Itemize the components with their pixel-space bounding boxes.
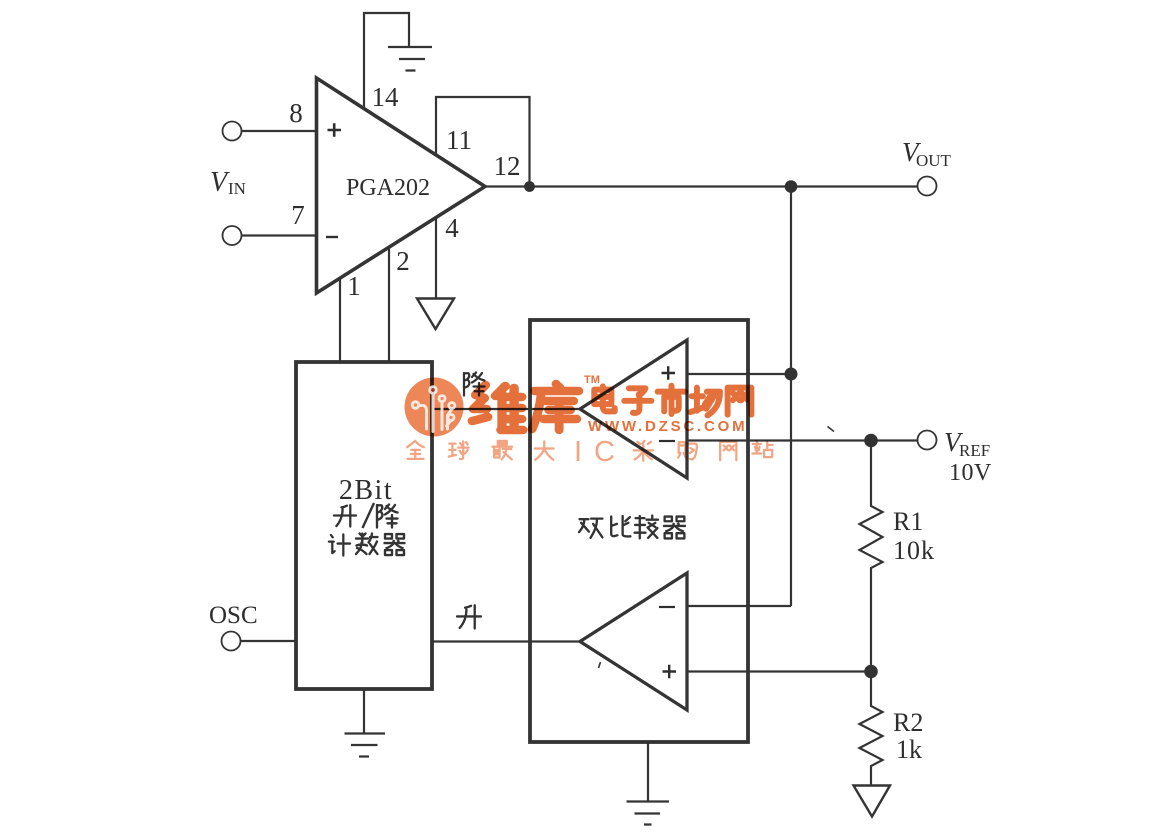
wire pin 1: [339, 278, 341, 362]
svg-text:WWW.DZSC.COM: WWW.DZSC.COM: [588, 418, 747, 435]
ground counter: [345, 734, 386, 757]
wire pin 7: [242, 234, 317, 236]
VOUT terminal circle: [918, 177, 937, 196]
counter box 2Bit: [296, 362, 432, 689]
watermark logo circuit traces: [411, 385, 456, 431]
counter text sheng/jiang row: [334, 505, 356, 526]
svg-text:4: 4: [445, 213, 459, 243]
wire pin 14 to top ground: [364, 13, 409, 109]
svg-text:1: 1: [347, 271, 361, 301]
ground arrow R2: [854, 786, 891, 817]
wire pin 11 feedback loop: [436, 97, 530, 187]
svg-text:12: 12: [494, 151, 521, 181]
svg-text:R2: R2: [893, 708, 923, 737]
wire DOWN net counter to comparator A: [432, 408, 580, 410]
wire VOUT branch vertical: [790, 187, 792, 607]
ground top (pin 14): [388, 47, 432, 71]
ground comparator: [627, 802, 670, 825]
svg-text:10V: 10V: [949, 460, 992, 486]
minus sign comparator A: [659, 440, 675, 442]
watermark brand WEI KU: [472, 384, 579, 430]
pin 8 input terminal circle: [223, 122, 242, 141]
svg-text:OUT: OUT: [916, 151, 952, 170]
label UP (sheng) net: [457, 605, 481, 628]
watermark slogan QUAN QIU ZUI DA IC CAI GOU WANG ZHAN: [407, 441, 772, 461]
svg-text:1k: 1k: [896, 735, 922, 764]
junction VREF divider: [864, 434, 878, 448]
VREF terminal circle: [918, 431, 937, 450]
plus sign op-amp: [328, 123, 342, 136]
comparator box: [530, 320, 748, 742]
svg-text:2Bit: 2Bit: [339, 475, 393, 506]
watermark logo circle: [405, 378, 464, 437]
svg-text:TM: TM: [584, 374, 600, 386]
stray mark near VREF wire: [828, 427, 835, 432]
pin 7 input terminal circle: [223, 226, 242, 245]
wire pin 2: [388, 247, 390, 362]
comparator box label shuang bi jiao qi: [579, 519, 602, 538]
junction pin12-loop: [524, 181, 535, 192]
svg-text:10k: 10k: [893, 536, 935, 565]
stray mark near comparator B: [599, 662, 601, 668]
comparator A upper: [580, 340, 687, 478]
wire counter ground: [363, 689, 365, 734]
svg-text:REF: REF: [959, 441, 990, 460]
wire UP net counter to comparator B: [432, 640, 580, 642]
resistor R1 10k: [860, 447, 883, 672]
svg-text:C: C: [594, 436, 615, 468]
comparator B lower: [580, 573, 687, 710]
watermark DIAN ZI SHI CHANG WANG: [594, 386, 751, 416]
wire OSC: [241, 640, 297, 642]
minus sign comparator B: [659, 606, 675, 608]
svg-text:R1: R1: [893, 507, 923, 536]
junction R1 R2: [864, 665, 878, 679]
op-amp U1 PGA202 triangle: [317, 78, 486, 293]
svg-text:IN: IN: [228, 179, 246, 198]
wire comparator B - input: [687, 605, 791, 607]
svg-text:PGA202: PGA202: [346, 175, 430, 201]
svg-text:V: V: [210, 167, 230, 198]
wire pin 4: [435, 217, 437, 298]
ground arrow pin 4: [417, 299, 454, 330]
svg-text:OSC: OSC: [209, 602, 258, 629]
wire VREF net comparator A - input: [687, 439, 918, 441]
svg-text:8: 8: [289, 98, 303, 128]
resistor R2 1k: [860, 678, 883, 785]
wire comparator ground: [647, 742, 649, 802]
wire comparator A + input: [687, 373, 791, 375]
junction output-branch: [785, 180, 798, 193]
plus sign comparator B: [663, 665, 677, 678]
counter text ji shu qi row: [329, 534, 350, 555]
label DOWN (jiang) net: [464, 373, 485, 396]
wire output pin 12 to VOUT: [485, 185, 918, 187]
svg-text:I: I: [574, 436, 582, 468]
svg-text:11: 11: [446, 125, 472, 155]
svg-text:7: 7: [291, 200, 305, 230]
junction comparator A plus: [785, 368, 798, 381]
minus sign op-amp: [326, 236, 338, 238]
wire comparator B + input: [687, 670, 871, 672]
plus sign comparator A: [662, 366, 676, 379]
svg-text:2: 2: [396, 246, 410, 276]
OSC terminal circle: [222, 632, 241, 651]
svg-text:14: 14: [372, 82, 400, 112]
wire pin 8: [242, 130, 317, 132]
